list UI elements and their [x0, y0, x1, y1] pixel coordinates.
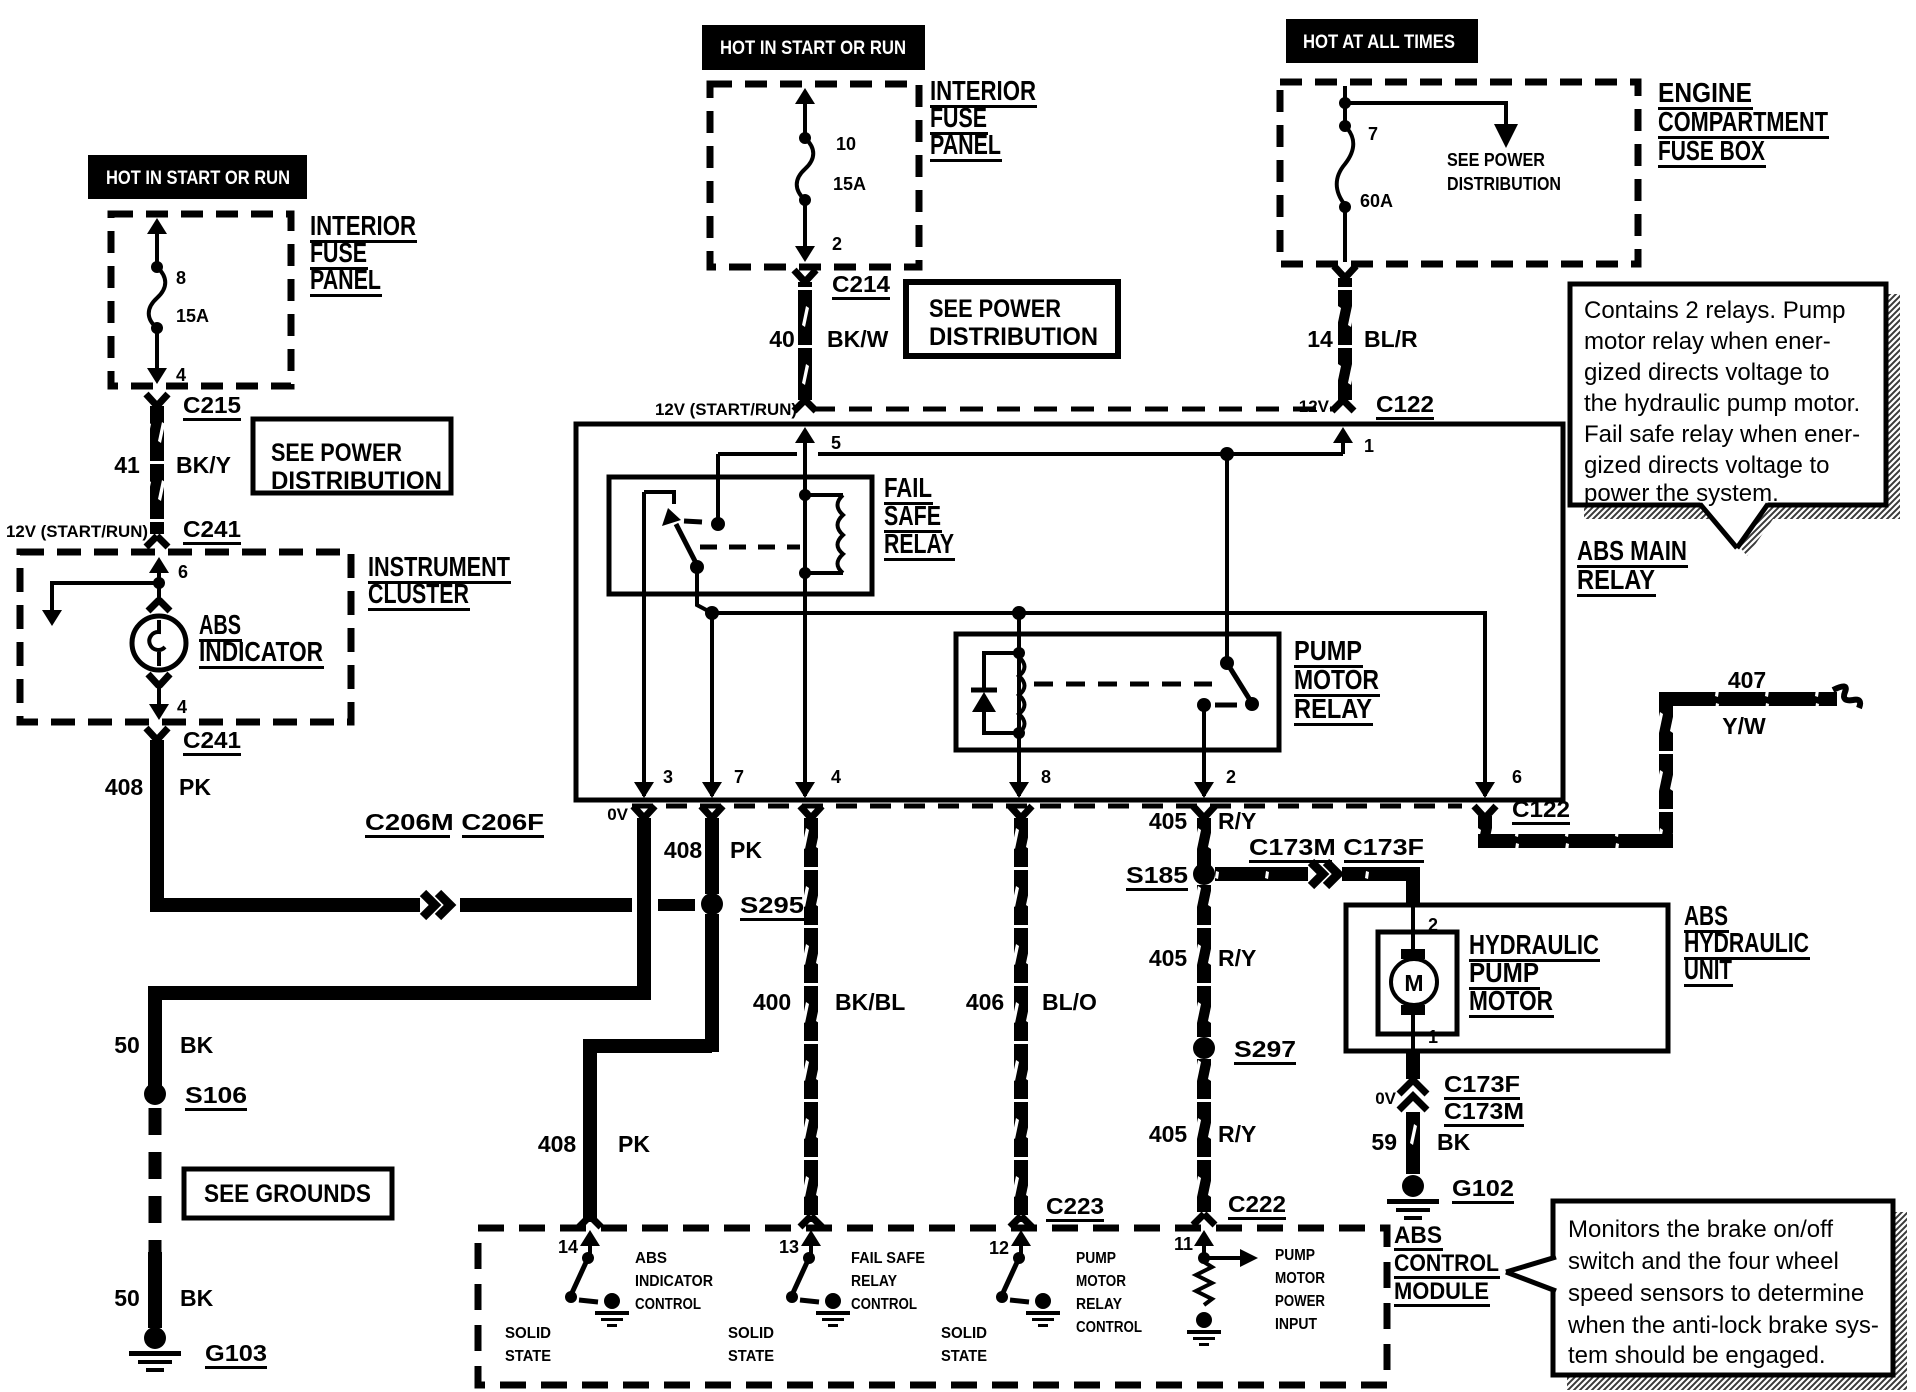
- label C206M C206F: [365, 809, 544, 838]
- svg-text:12V: 12V: [1299, 397, 1330, 416]
- label FAIL SAFE RELAY: [884, 472, 955, 561]
- connector bells at module: [579, 1214, 1215, 1227]
- ground G102: [1387, 1175, 1514, 1220]
- svg-text:1: 1: [1428, 1027, 1438, 1047]
- svg-text:PUMP: PUMP: [1294, 635, 1362, 666]
- wire branch to hydraulic unit: [1215, 834, 1424, 907]
- solid state switch Q14: [565, 1252, 629, 1327]
- svg-text:ABS: ABS: [1394, 1222, 1442, 1249]
- svg-text:PK: PK: [618, 1131, 650, 1157]
- svg-text:0V: 0V: [1375, 1089, 1396, 1108]
- wire 400 BK/BL pin4 to module: [753, 806, 905, 1222]
- label ABS HYDRAULIC UNIT: [1684, 900, 1810, 987]
- svg-text:4: 4: [831, 767, 841, 787]
- svg-text:INDICATOR: INDICATOR: [199, 636, 323, 667]
- connector C214: [794, 270, 890, 300]
- svg-text:FUSE BOX: FUSE BOX: [1658, 135, 1765, 166]
- pin 13 entry: [779, 1230, 821, 1257]
- label INTERIOR FUSE PANEL (left): [310, 210, 417, 297]
- svg-text:SEE POWER: SEE POWER: [271, 439, 402, 467]
- splice S297: [1193, 1036, 1296, 1065]
- label SOLID STATE 1: [505, 1325, 551, 1365]
- wire pin8 from coil: [1009, 733, 1051, 798]
- svg-text:S106: S106: [185, 1082, 247, 1108]
- svg-text:S297: S297: [1234, 1036, 1296, 1062]
- wire 405 R/Y pin2 to module: [1149, 806, 1257, 866]
- wire 408 horizontal to S295: [150, 898, 632, 912]
- svg-text:40: 40: [769, 326, 795, 352]
- svg-text:405: 405: [1149, 808, 1188, 834]
- svg-text:DISTRIBUTION: DISTRIBUTION: [1447, 174, 1561, 194]
- solid state switch Q12: [996, 1252, 1060, 1327]
- svg-text:R/Y: R/Y: [1218, 945, 1256, 971]
- svg-text:R/Y: R/Y: [1218, 1121, 1256, 1147]
- label ABS CONTROL MODULE: [1394, 1222, 1500, 1307]
- label INTERIOR FUSE PANEL (middle): [930, 75, 1037, 162]
- svg-text:BK/BL: BK/BL: [835, 989, 905, 1015]
- svg-text:C173M: C173M: [1444, 1098, 1524, 1124]
- node coil feed: [1012, 606, 1026, 653]
- svg-text:MOTOR: MOTOR: [1076, 1273, 1126, 1290]
- svg-text:tem should be engaged.: tem should be engaged.: [1568, 1342, 1826, 1369]
- fail safe NO contact: [711, 454, 725, 531]
- pump relay coil: [1013, 647, 1025, 739]
- ABS indicator bulb: [132, 600, 324, 720]
- connector below engine box: [1334, 266, 1356, 278]
- svg-text:PUMP: PUMP: [1275, 1247, 1315, 1264]
- label FAIL SAFE RELAY CONTROL: [851, 1250, 925, 1313]
- svg-text:HOT AT ALL TIMES: HOT AT ALL TIMES: [1303, 32, 1455, 53]
- svg-text:15A: 15A: [176, 306, 209, 326]
- svg-text:1: 1: [1364, 436, 1374, 456]
- svg-text:ENGINE: ENGINE: [1658, 77, 1752, 108]
- svg-text:gized directs voltage to: gized directs voltage to: [1584, 452, 1829, 479]
- svg-text:6: 6: [1512, 767, 1522, 787]
- svg-text:RELAY: RELAY: [851, 1273, 897, 1290]
- svg-text:HYDRAULIC: HYDRAULIC: [1469, 929, 1599, 960]
- svg-text:15A: 15A: [833, 174, 866, 194]
- branch arrow inside cluster: [42, 583, 159, 626]
- svg-text:CONTROL: CONTROL: [635, 1296, 701, 1313]
- connector C122 bell at bus: [1299, 391, 1434, 420]
- fail safe NC contact: [644, 492, 674, 504]
- svg-text:C241: C241: [183, 727, 241, 753]
- callout module note: [1506, 1201, 1893, 1375]
- wire pin2 from switch: [1194, 705, 1236, 798]
- fuse 7 60A: [1337, 86, 1393, 262]
- svg-text:STATE: STATE: [941, 1348, 987, 1365]
- connector C241 bottom: [146, 727, 241, 756]
- svg-text:UNIT: UNIT: [1684, 954, 1732, 985]
- svg-text:SOLID: SOLID: [941, 1325, 987, 1342]
- pump actuation dashes: [1034, 682, 1212, 687]
- svg-text:408: 408: [105, 774, 144, 800]
- node pump switch feed: [1220, 447, 1234, 461]
- instrument cluster box: [20, 552, 351, 722]
- ABS main relay box: [576, 424, 1563, 800]
- svg-text:13: 13: [779, 1237, 799, 1257]
- svg-text:SEE POWER: SEE POWER: [929, 295, 1061, 323]
- svg-text:14: 14: [558, 1237, 578, 1257]
- svg-text:C206M C206F: C206M C206F: [365, 809, 544, 835]
- SEE POWER DISTRIBUTION box (left): [253, 419, 451, 495]
- label ENGINE COMPARTMENT FUSE BOX: [1658, 77, 1829, 168]
- svg-text:14: 14: [1307, 326, 1333, 352]
- ABS hydraulic unit box: [1346, 905, 1668, 1051]
- svg-text:407: 407: [1728, 667, 1766, 693]
- label PUMP MOTOR RELAY: [1294, 635, 1380, 726]
- interior fuse panel box (middle): [710, 84, 919, 267]
- svg-text:HOT IN START OR RUN: HOT IN START OR RUN: [720, 38, 906, 59]
- pump motor relay box: [956, 634, 1279, 750]
- svg-text:2: 2: [1226, 767, 1236, 787]
- svg-text:11: 11: [1174, 1234, 1193, 1254]
- svg-text:41: 41: [114, 452, 140, 478]
- callout relays note shadow: [1584, 294, 1900, 556]
- wire pin7 from pivot: [702, 613, 744, 798]
- solid state switch Q13: [786, 1252, 850, 1327]
- svg-text:C173M C173F: C173M C173F: [1249, 834, 1424, 860]
- svg-text:MOTOR: MOTOR: [1275, 1270, 1325, 1287]
- svg-text:PANEL: PANEL: [930, 129, 1001, 160]
- header HOT IN START OR RUN (left): [88, 155, 307, 199]
- svg-text:switch and the four wheel: switch and the four wheel: [1568, 1248, 1839, 1275]
- SEE GROUNDS box: [184, 1169, 392, 1218]
- cluster pin 6 entry: [149, 557, 188, 600]
- pin 5: [795, 427, 841, 495]
- label PUMP MOTOR RELAY CONTROL: [1076, 1250, 1142, 1336]
- svg-text:S185: S185: [1126, 862, 1188, 888]
- interior fuse panel box (left): [111, 214, 291, 386]
- svg-text:8: 8: [1041, 767, 1051, 787]
- pin 11 entry: [1174, 1230, 1214, 1258]
- svg-text:C122: C122: [1376, 391, 1434, 417]
- svg-text:2: 2: [832, 234, 842, 254]
- svg-text:PK: PK: [730, 837, 762, 863]
- callout relays note: [1570, 284, 1886, 548]
- svg-text:50: 50: [114, 1285, 140, 1311]
- svg-text:SEE GROUNDS: SEE GROUNDS: [204, 1180, 371, 1208]
- svg-text:RELAY: RELAY: [1076, 1296, 1122, 1313]
- splice S295: [701, 892, 804, 921]
- svg-text:59: 59: [1371, 1129, 1397, 1155]
- svg-text:C222: C222: [1228, 1191, 1286, 1217]
- 0V dashed bus below relay: [607, 805, 1462, 824]
- svg-text:12: 12: [989, 1238, 1009, 1258]
- svg-text:G102: G102: [1452, 1175, 1514, 1201]
- svg-text:5: 5: [831, 433, 841, 453]
- svg-text:Monitors the brake on/off: Monitors the brake on/off: [1568, 1216, 1833, 1243]
- wire pin3 from NC: [634, 492, 673, 798]
- connector C206 chevrons: [420, 893, 458, 917]
- svg-text:COMPARTMENT: COMPARTMENT: [1658, 106, 1828, 137]
- connector C241 top: [6, 516, 241, 547]
- wire 40 BK/W: [769, 282, 888, 400]
- svg-text:FAIL: FAIL: [884, 472, 932, 503]
- svg-text:when the anti-lock brake sys-: when the anti-lock brake sys-: [1567, 1312, 1879, 1339]
- svg-text:7: 7: [1368, 124, 1378, 144]
- svg-text:PANEL: PANEL: [310, 264, 381, 295]
- svg-text:405: 405: [1149, 1121, 1188, 1147]
- svg-text:BK: BK: [180, 1032, 214, 1058]
- svg-text:PK: PK: [179, 774, 211, 800]
- svg-text:MOTOR: MOTOR: [1469, 985, 1553, 1016]
- header HOT IN START OR RUN (middle): [702, 25, 925, 70]
- svg-text:0V: 0V: [607, 805, 628, 824]
- svg-text:400: 400: [753, 989, 791, 1015]
- svg-text:BK: BK: [1437, 1129, 1471, 1155]
- fail safe switch blade: [662, 508, 702, 565]
- connector C173F C173M: [1375, 1071, 1524, 1127]
- ABS control module box: [478, 1228, 1387, 1385]
- splice S185: [1126, 862, 1215, 891]
- svg-text:M: M: [1404, 970, 1423, 996]
- svg-text:RELAY: RELAY: [1294, 693, 1372, 724]
- svg-text:MOTOR: MOTOR: [1294, 664, 1379, 695]
- ground G103: [129, 1327, 267, 1372]
- label HYDRAULIC PUMP MOTOR: [1469, 929, 1600, 1018]
- wire 407 Y/W: [1478, 667, 1860, 848]
- svg-text:BK/W: BK/W: [827, 326, 889, 352]
- svg-text:Fail safe relay when ener-: Fail safe relay when ener-: [1584, 421, 1860, 448]
- svg-text:power the system.: power the system.: [1584, 480, 1779, 507]
- svg-text:SOLID: SOLID: [728, 1325, 774, 1342]
- svg-text:8: 8: [176, 268, 186, 288]
- svg-text:CONTROL: CONTROL: [1394, 1250, 1499, 1277]
- svg-text:C223: C223: [1046, 1193, 1104, 1219]
- label PUMP MOTOR POWER INPUT: [1275, 1247, 1325, 1333]
- svg-text:STATE: STATE: [505, 1348, 551, 1365]
- svg-text:C241: C241: [183, 516, 241, 542]
- svg-text:Contains 2 relays. Pump: Contains 2 relays. Pump: [1584, 297, 1845, 324]
- svg-text:CLUSTER: CLUSTER: [368, 578, 469, 609]
- fail safe relay box: [609, 477, 872, 594]
- connector C215: [146, 392, 241, 421]
- svg-text:DISTRIBUTION: DISTRIBUTION: [929, 323, 1098, 351]
- svg-text:PUMP: PUMP: [1076, 1250, 1116, 1267]
- svg-text:SAFE: SAFE: [884, 500, 941, 531]
- callout module note shadow: [1567, 1212, 1907, 1390]
- svg-text:4: 4: [176, 365, 186, 385]
- hydraulic pump motor U1: [1378, 905, 1457, 1051]
- label INSTRUMENT CLUSTER: [368, 551, 511, 611]
- svg-text:BK: BK: [180, 1285, 214, 1311]
- svg-text:STATE: STATE: [728, 1348, 774, 1365]
- svg-text:ABS: ABS: [635, 1250, 667, 1267]
- svg-text:POWER: POWER: [1275, 1293, 1325, 1310]
- svg-text:BL/R: BL/R: [1364, 326, 1418, 352]
- svg-text:3: 3: [663, 767, 673, 787]
- svg-text:SEE POWER: SEE POWER: [1447, 150, 1545, 170]
- svg-text:speed sensors to determine: speed sensors to determine: [1568, 1280, 1864, 1307]
- svg-text:motor relay when ener-: motor relay when ener-: [1584, 328, 1831, 355]
- svg-text:C214: C214: [832, 271, 890, 297]
- label SOLID STATE 2: [728, 1325, 774, 1365]
- wire 14 BL/R: [1307, 278, 1418, 400]
- wire 41 BK/Y: [114, 406, 231, 534]
- svg-text:MODULE: MODULE: [1394, 1278, 1489, 1305]
- pump switch: [1197, 454, 1259, 712]
- svg-text:Y/W: Y/W: [1722, 713, 1766, 739]
- svg-text:G103: G103: [205, 1340, 267, 1366]
- svg-text:RELAY: RELAY: [884, 528, 954, 559]
- header HOT AT ALL TIMES: [1286, 19, 1478, 63]
- svg-text:50: 50: [114, 1032, 140, 1058]
- splice S106: [144, 1082, 247, 1111]
- engine compartment fuse box: [1280, 82, 1638, 264]
- svg-text:FAIL SAFE: FAIL SAFE: [851, 1250, 925, 1267]
- wire motor to C173 connector: [1406, 1051, 1420, 1079]
- svg-text:gized directs voltage to: gized directs voltage to: [1584, 359, 1829, 386]
- fail safe pivot: [690, 560, 712, 613]
- pin 14 entry: [558, 1230, 600, 1257]
- pin 1: [1333, 427, 1374, 456]
- svg-text:CONTROL: CONTROL: [1076, 1319, 1142, 1336]
- fail safe actuation dashes: [700, 545, 800, 550]
- fail safe relay coil: [799, 489, 843, 579]
- svg-text:RELAY: RELAY: [1577, 564, 1655, 595]
- SEE POWER DISTRIBUTION box (middle): [906, 282, 1118, 356]
- svg-text:6: 6: [178, 562, 188, 582]
- ground wire from pin3 down-left: [114, 806, 655, 1098]
- wire 406 BL/O pin8 to module: [966, 806, 1097, 1222]
- label C223: [1046, 1193, 1104, 1222]
- wire 408 PK pin7 branch: [538, 806, 763, 1222]
- svg-text:C173F: C173F: [1444, 1071, 1520, 1097]
- wire 408 PK from cluster: [105, 740, 212, 912]
- svg-text:the hydraulic pump motor.: the hydraulic pump motor.: [1584, 390, 1860, 417]
- svg-text:2: 2: [1428, 915, 1438, 935]
- svg-text:R/Y: R/Y: [1218, 808, 1256, 834]
- label SOLID STATE 3: [941, 1325, 987, 1365]
- svg-text:7: 7: [734, 767, 744, 787]
- fuse 8 15A: [147, 218, 209, 385]
- svg-text:DISTRIBUTION: DISTRIBUTION: [271, 467, 442, 495]
- wire NO contact to pin 1: [718, 452, 1343, 456]
- svg-text:60A: 60A: [1360, 191, 1393, 211]
- connector C122 at 0V right: [1474, 796, 1570, 825]
- svg-text:S295: S295: [740, 892, 804, 918]
- svg-text:12V (START/RUN): 12V (START/RUN): [655, 400, 797, 419]
- resistor R11 and arrow: [1187, 1249, 1258, 1346]
- dashed ground wire 50 BK: [114, 1108, 213, 1328]
- svg-text:SOLID: SOLID: [505, 1325, 551, 1342]
- svg-text:10: 10: [836, 134, 856, 154]
- svg-text:HOT IN START OR RUN: HOT IN START OR RUN: [106, 168, 290, 189]
- svg-text:PUMP: PUMP: [1469, 957, 1539, 988]
- svg-text:C215: C215: [183, 392, 241, 418]
- wire dash into S295: [658, 899, 695, 911]
- svg-text:4: 4: [177, 697, 187, 717]
- pin 12 entry: [989, 1230, 1031, 1258]
- pump relay diode: [971, 653, 1019, 733]
- svg-text:CONTROL: CONTROL: [851, 1296, 917, 1313]
- wire 405 to C222: [1149, 1059, 1257, 1212]
- connector C214 bell at bus: [794, 400, 816, 411]
- svg-text:BL/O: BL/O: [1042, 989, 1097, 1015]
- svg-text:408: 408: [664, 837, 703, 863]
- wire 59 BK: [1371, 1112, 1470, 1174]
- svg-text:408: 408: [538, 1131, 577, 1157]
- svg-text:INPUT: INPUT: [1275, 1316, 1317, 1333]
- svg-text:405: 405: [1149, 945, 1188, 971]
- svg-text:C122: C122: [1512, 796, 1570, 822]
- svg-text:INDICATOR: INDICATOR: [635, 1273, 713, 1290]
- wire pin4 from coil: [795, 573, 841, 798]
- fuse 10 15A: [795, 88, 866, 262]
- wire bus from pivot to pin6: [705, 606, 1522, 798]
- wire 405 between splices: [1149, 885, 1257, 1037]
- svg-text:BK/Y: BK/Y: [176, 452, 231, 478]
- svg-text:12V (START/RUN): 12V (START/RUN): [6, 522, 148, 541]
- 12V START/RUN dashed bus: [655, 400, 1336, 419]
- svg-text:406: 406: [966, 989, 1004, 1015]
- label ABS MAIN RELAY: [1577, 535, 1688, 597]
- label ABS INDICATOR CONTROL: [635, 1250, 713, 1313]
- label C222: [1228, 1191, 1286, 1220]
- see power distribution arrow: [1345, 103, 1561, 194]
- svg-text:ABS MAIN: ABS MAIN: [1577, 535, 1687, 566]
